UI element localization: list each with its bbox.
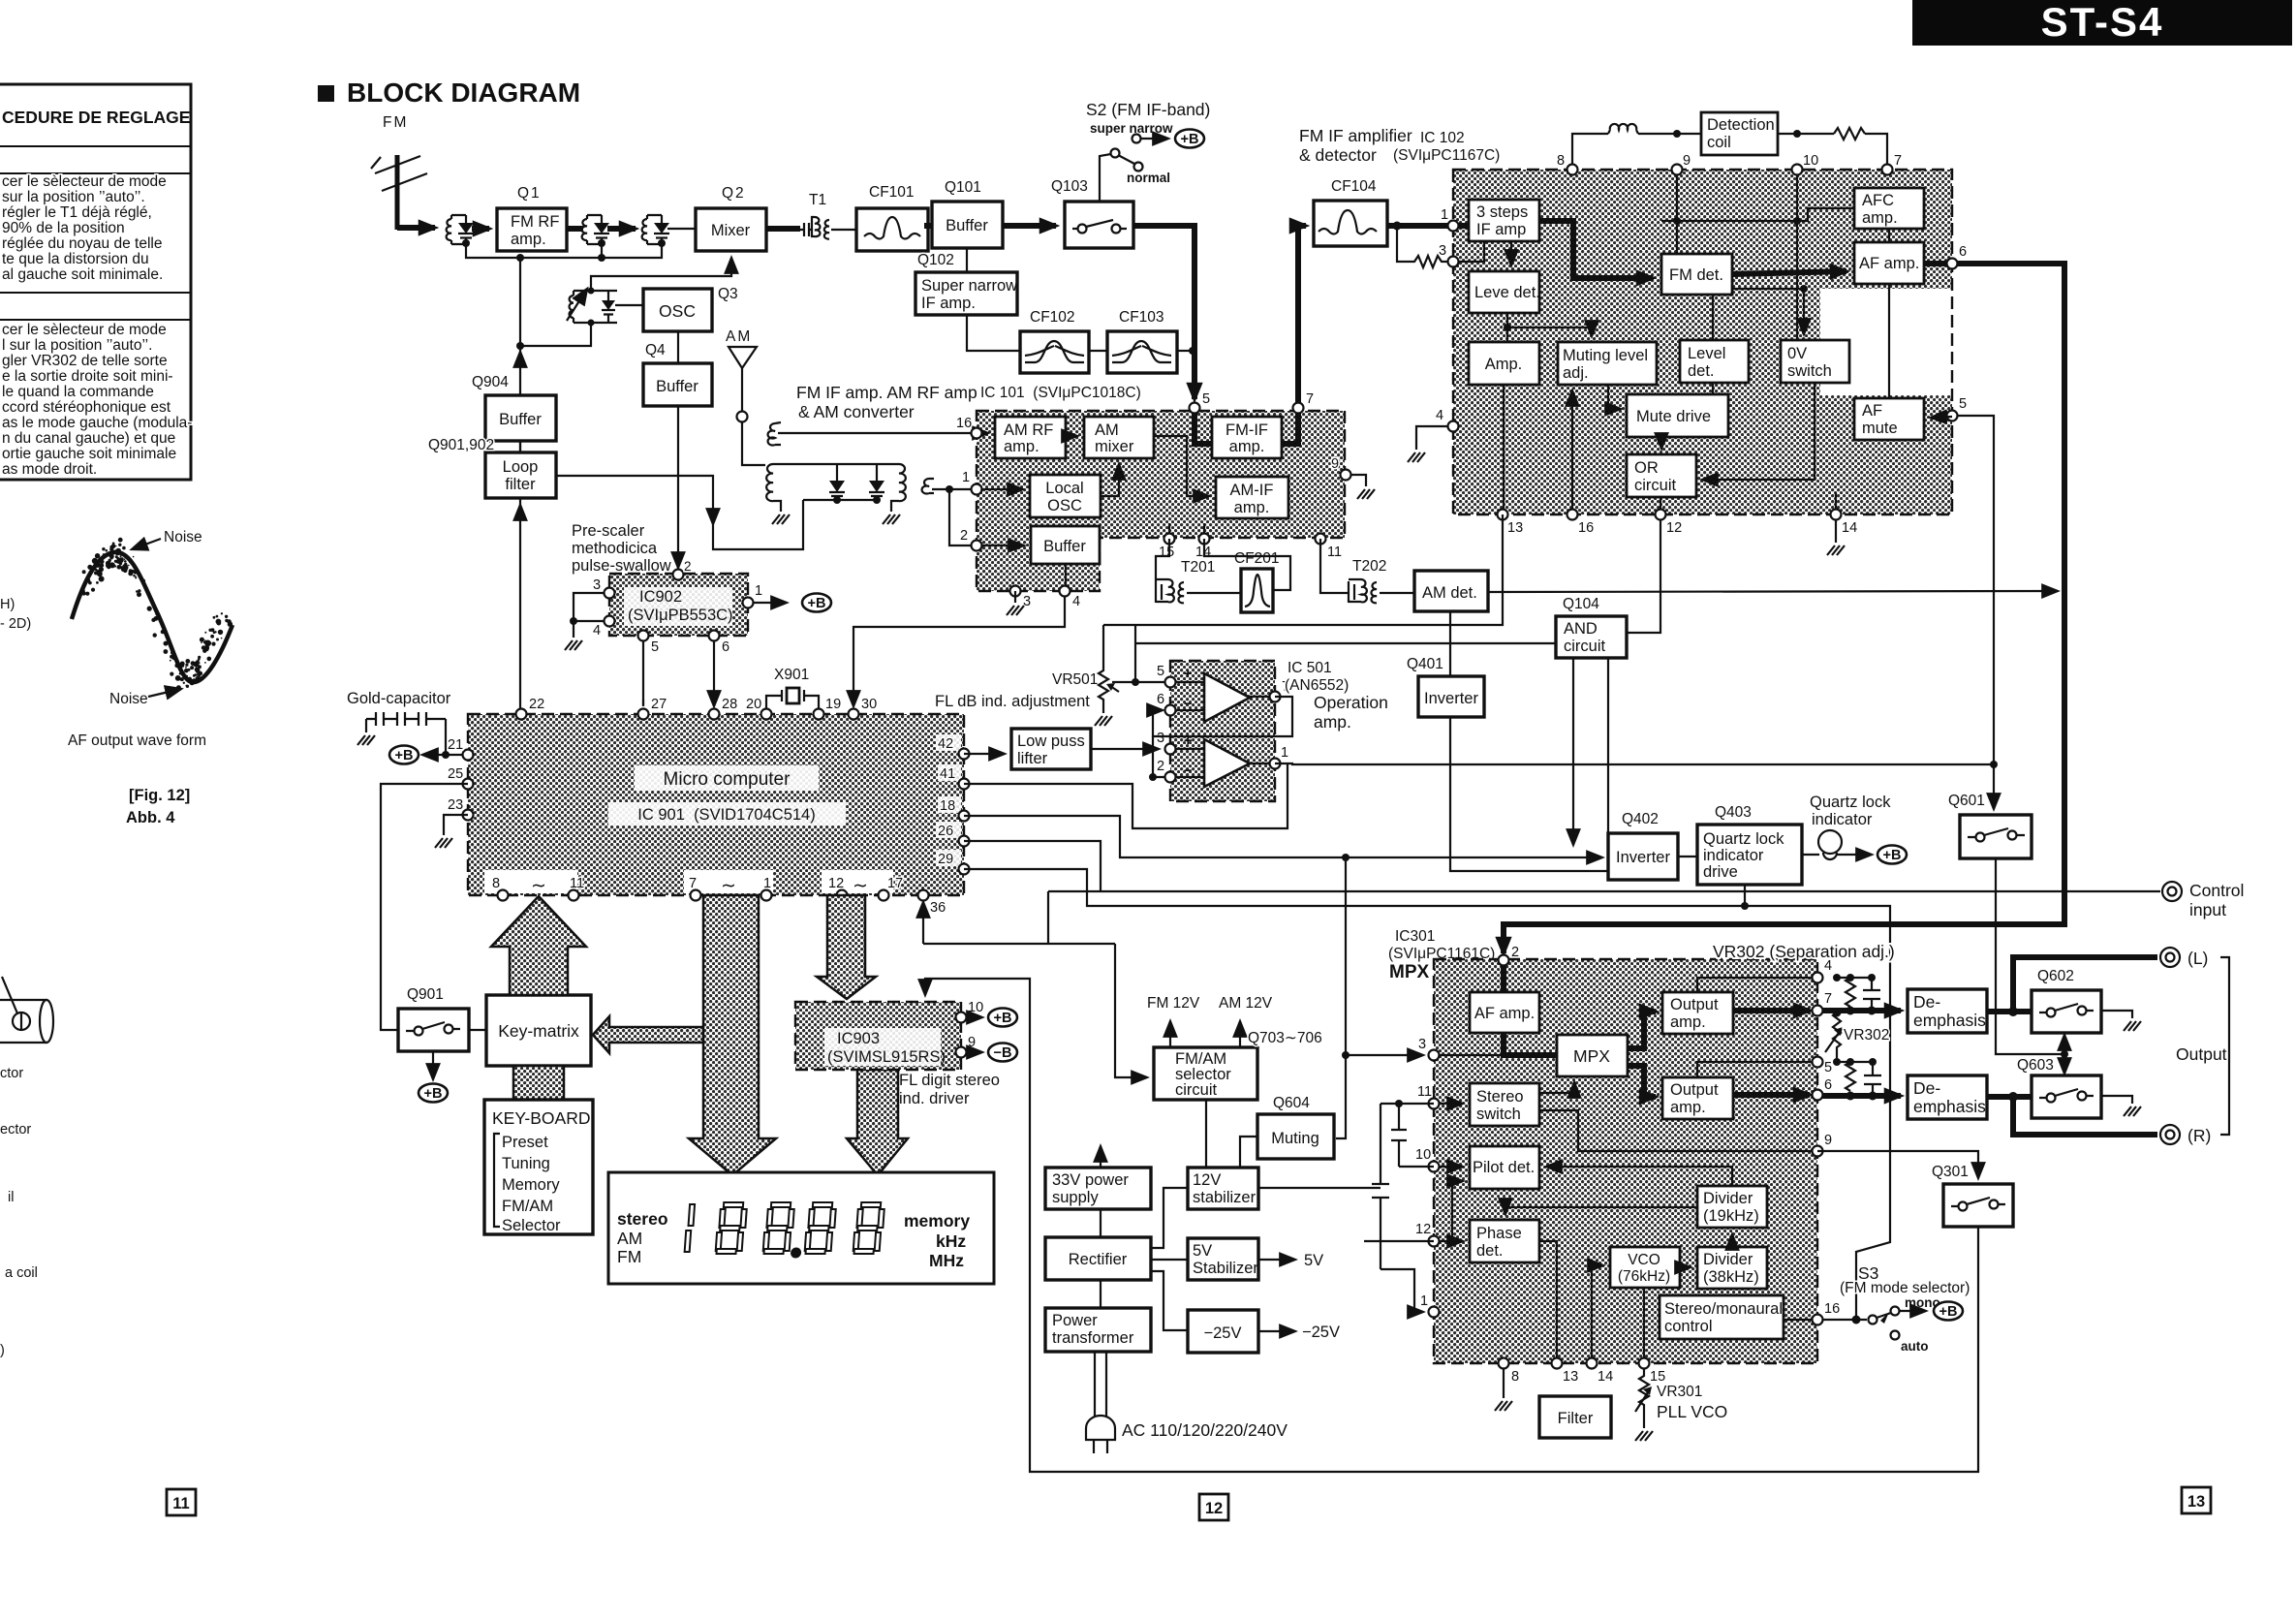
svg-text:26: 26 — [938, 824, 953, 839]
IC101 pins — [1190, 403, 1200, 414]
svg-text:+: + — [1184, 667, 1192, 682]
svg-text:AM-IF: AM-IF — [1230, 482, 1274, 499]
svg-text:AM det.: AM det. — [1422, 584, 1477, 602]
svg-text:(SVIμPB553C): (SVIμPB553C) — [628, 607, 733, 624]
svg-text:KEY-BOARD: KEY-BOARD — [492, 1108, 590, 1128]
French instruction box — [0, 84, 192, 480]
svg-text:∼: ∼ — [721, 876, 736, 896]
svg-text:stabilizer: stabilizer — [1193, 1189, 1257, 1206]
36 net — [922, 902, 924, 944]
buffer (IC101) — [1031, 526, 1100, 564]
svg-text:9: 9 — [1331, 456, 1339, 472]
svg-text:& detector: & detector — [1299, 145, 1377, 165]
svg-text:12: 12 — [1415, 1222, 1431, 1237]
svg-text:H): H) — [0, 597, 15, 612]
svg-text:adj.: adj. — [1563, 364, 1589, 382]
svg-text:switch: switch — [1787, 362, 1832, 380]
svg-text:OSC: OSC — [1047, 497, 1082, 514]
svg-text:42: 42 — [938, 736, 953, 752]
capacitors left of MPX (pins 11/10/12 network) — [1364, 1104, 1434, 1241]
+B supply — [802, 594, 831, 612]
svg-text:Stereo/monaural: Stereo/monaural — [1664, 1300, 1783, 1318]
svg-text:Divider: Divider — [1703, 1251, 1753, 1268]
svg-text:IC903: IC903 — [837, 1030, 880, 1047]
transistor Q2 mixer — [696, 185, 766, 251]
transformer T1 — [800, 192, 829, 239]
18 net to Q402 / MPX pin3 — [964, 816, 1602, 857]
svg-text:12: 12 — [1666, 520, 1682, 536]
svg-text:∼: ∼ — [531, 876, 546, 896]
MPX inner blocks — [1470, 992, 1539, 1033]
svg-text:16: 16 — [956, 416, 972, 431]
Q901,902 loop filter — [428, 437, 556, 498]
feed from IC101 pin4 to pin 30 — [853, 591, 1065, 706]
svg-text:l sur la position ’’auto’’.: l sur la position ’’auto’’. — [2, 337, 152, 354]
svg-text:amp.: amp. — [1670, 1099, 1706, 1116]
ground — [2124, 1021, 2141, 1031]
svg-text:n du canal gauche) et que: n du canal gauche) et que — [2, 430, 175, 447]
svg-text:ST-S4: ST-S4 — [2041, 0, 2164, 45]
svg-text:2: 2 — [960, 528, 968, 544]
svg-text:Preset: Preset — [502, 1134, 548, 1151]
svg-text:Level: Level — [1688, 345, 1725, 362]
svg-text:Q102: Q102 — [917, 252, 954, 268]
+B supply — [988, 1009, 1017, 1027]
svg-text:IC 102: IC 102 — [1420, 130, 1465, 146]
svg-text:2: 2 — [1511, 945, 1519, 960]
svg-text:CF103: CF103 — [1119, 309, 1164, 326]
svg-text:Output: Output — [1670, 1081, 1719, 1099]
svg-text:8: 8 — [492, 876, 500, 891]
svg-text:circuit: circuit — [1175, 1081, 1218, 1099]
svg-text:CF104: CF104 — [1331, 178, 1377, 195]
svg-text:amp.: amp. — [1670, 1013, 1706, 1031]
svg-text:3: 3 — [593, 577, 601, 593]
svg-text:Q402: Q402 — [1622, 811, 1659, 827]
svg-text:T1: T1 — [809, 192, 826, 208]
svg-text:Inverter: Inverter — [1616, 849, 1670, 866]
svg-text:Quartz lock: Quartz lock — [1810, 794, 1891, 811]
svg-text:T202: T202 — [1352, 558, 1386, 575]
svg-text:9: 9 — [1683, 153, 1691, 169]
svg-text:AM 12V: AM 12V — [1219, 995, 1273, 1012]
noise clusters on waveform — [80, 538, 233, 691]
transistor Q101 buffer — [932, 179, 1003, 248]
IC903 — [795, 1000, 983, 1070]
ST-S4 banner — [1912, 0, 2292, 46]
svg-text:11: 11 — [1417, 1084, 1432, 1100]
svg-text:FL digit stereo: FL digit stereo — [899, 1072, 1000, 1089]
svg-text:4: 4 — [1436, 408, 1443, 423]
AF output waveform figure — [68, 529, 233, 826]
svg-text:BLOCK DIAGRAM: BLOCK DIAGRAM — [347, 78, 580, 108]
svg-text:input: input — [2189, 900, 2226, 919]
op1 feedback 7->6 and tie to 2 — [1153, 697, 1292, 736]
svg-text:CF101: CF101 — [869, 184, 915, 201]
transistor Q1 FM RF amp — [497, 185, 567, 251]
+B supply — [1175, 130, 1204, 148]
svg-text:7: 7 — [1824, 991, 1832, 1007]
title BLOCK DIAGRAM — [318, 78, 580, 108]
svg-text:22: 22 — [529, 697, 544, 712]
transistor Q603 switch — [2017, 1057, 2101, 1118]
tuned coil 2 — [582, 215, 609, 244]
svg-text:VR302: VR302 — [1844, 1027, 1889, 1044]
filter CF103 — [1107, 309, 1177, 373]
svg-text:FM: FM — [617, 1247, 641, 1266]
big arrow IC903->display — [847, 1070, 908, 1175]
pin 25 wire to Q901 — [381, 784, 468, 1030]
FM-IF amp — [1212, 417, 1282, 458]
svg-text:Q103: Q103 — [1051, 178, 1088, 195]
svg-text:Q104: Q104 — [1563, 596, 1599, 612]
svg-text:FL dB ind. adjustment: FL dB ind. adjustment — [935, 693, 1090, 710]
micro right pins — [936, 734, 970, 875]
ground — [1635, 1431, 1653, 1441]
svg-text:AM: AM — [617, 1229, 642, 1248]
svg-text:det.: det. — [1476, 1242, 1504, 1260]
svg-text:Buffer: Buffer — [946, 217, 988, 234]
ground — [357, 735, 375, 745]
svg-text:VCO: VCO — [1628, 1252, 1660, 1268]
svg-text:super narrow: super narrow — [1090, 121, 1173, 136]
svg-text:5: 5 — [1824, 1060, 1832, 1075]
svg-text:18: 18 — [940, 798, 955, 814]
potentiometer VR301 — [1639, 1369, 1649, 1428]
CF104 — [1298, 226, 1306, 402]
svg-text:−25V: −25V — [1204, 1324, 1242, 1342]
svg-text:Power: Power — [1052, 1312, 1098, 1329]
AF mute feed from Q601 — [1958, 416, 1994, 764]
svg-text:12V: 12V — [1193, 1171, 1221, 1189]
svg-text:Q4: Q4 — [645, 342, 666, 358]
svg-text:1: 1 — [1420, 1293, 1428, 1309]
svg-text:AM: AM — [1095, 421, 1119, 439]
svg-text:∼: ∼ — [853, 876, 868, 896]
svg-text:T201: T201 — [1181, 559, 1215, 576]
svg-text:AND: AND — [1564, 620, 1598, 638]
svg-text:(SVIMSL915RS): (SVIMSL915RS) — [827, 1048, 946, 1066]
svg-text:IC902: IC902 — [639, 588, 682, 606]
svg-text:Operation: Operation — [1314, 693, 1388, 712]
svg-text:Q2: Q2 — [722, 185, 746, 202]
svg-text:5: 5 — [1202, 391, 1210, 407]
ground — [1827, 545, 1845, 555]
svg-text:coil: coil — [1707, 134, 1731, 151]
svg-text:10: 10 — [968, 1000, 983, 1015]
svg-text:6: 6 — [722, 639, 729, 655]
svg-text:as mode droit.: as mode droit. — [2, 461, 97, 478]
svg-text:19: 19 — [825, 697, 841, 712]
svg-text:Quartz lock: Quartz lock — [1703, 830, 1784, 848]
ground — [1495, 1401, 1512, 1411]
svg-text:4: 4 — [1824, 958, 1832, 974]
noise cluster top — [0, 0, 1, 1]
AC plug — [1095, 1352, 1106, 1417]
svg-text:33V power: 33V power — [1052, 1171, 1129, 1189]
svg-text:pulse-swallow: pulse-swallow — [572, 557, 671, 575]
svg-text:Output: Output — [2176, 1044, 2227, 1064]
transistor Q4 buffer — [643, 342, 712, 406]
svg-text:amp.: amp. — [1234, 499, 1270, 516]
svg-text:det.: det. — [1688, 362, 1715, 380]
big arrow micro->display — [689, 895, 776, 1175]
svg-text:16: 16 — [1578, 520, 1594, 536]
AM det — [1414, 571, 1488, 611]
svg-text:AF amp.: AF amp. — [1474, 1005, 1535, 1022]
pin 4 ground — [1416, 426, 1447, 450]
svg-text:5V: 5V — [1304, 1252, 1323, 1269]
svg-text:& AM converter: & AM converter — [798, 402, 915, 421]
wire antenna to coil — [397, 225, 435, 231]
svg-text:Buffer: Buffer — [1043, 538, 1086, 555]
+B supply — [1934, 1302, 1963, 1321]
svg-text:[Fig. 12]: [Fig. 12] — [129, 787, 190, 804]
svg-text:90% de la position: 90% de la position — [2, 220, 125, 236]
svg-text:3: 3 — [1023, 594, 1031, 609]
svg-text:20: 20 — [746, 697, 761, 712]
svg-text:normal: normal — [1127, 171, 1170, 185]
pin 14 ground — [1835, 520, 1837, 543]
detection coil — [1572, 112, 1887, 170]
svg-text:methodicica: methodicica — [572, 540, 658, 557]
12V line into MPX — [1258, 1187, 1381, 1189]
svg-text:13: 13 — [2187, 1493, 2205, 1511]
svg-text:(L): (L) — [2187, 949, 2208, 968]
svg-text:e la sortie droite soit mini-: e la sortie droite soit mini- — [2, 368, 173, 385]
svg-text:Amp.: Amp. — [1485, 356, 1523, 373]
MPX pins — [1499, 955, 1509, 966]
AM mixer — [1084, 417, 1154, 458]
svg-text:MPX: MPX — [1573, 1046, 1610, 1066]
svg-text:1: 1 — [763, 876, 771, 891]
ground — [772, 514, 790, 524]
svg-text:OR: OR — [1634, 459, 1659, 477]
resistor + capacitor networks at MPX pins 4/7 and 5/6, potentiometer VR302 — [1697, 978, 1817, 992]
svg-text:réglée du noyau de telle: réglée du noyau de telle — [2, 235, 162, 252]
svg-text:FM det.: FM det. — [1669, 266, 1723, 284]
svg-text:FM RF: FM RF — [511, 213, 559, 231]
svg-text:Pilot det.: Pilot det. — [1473, 1159, 1535, 1176]
ground — [1408, 452, 1425, 462]
svg-text:Abb. 4: Abb. 4 — [126, 809, 175, 826]
MPX pin8 ground — [1503, 1369, 1505, 1398]
svg-text:drive: drive — [1703, 863, 1738, 881]
svg-text:): ) — [0, 1343, 5, 1358]
svg-text:Buffer: Buffer — [499, 411, 542, 428]
svg-text:FM 12V: FM 12V — [1147, 995, 1200, 1012]
micro bottom pins — [484, 870, 946, 916]
transistor Q103 IF band switch — [1051, 178, 1133, 248]
svg-text:il: il — [8, 1190, 14, 1205]
svg-text:emphasis: emphasis — [1913, 1097, 1986, 1116]
svg-text:−25V: −25V — [1302, 1324, 1340, 1341]
svg-text:VR302 (Separation adj.): VR302 (Separation adj.) — [1713, 942, 1895, 961]
svg-text:IC 101 (SVIμPC1018C): IC 101 (SVIμPC1018C) — [980, 385, 1141, 401]
svg-text:ctor: ctor — [0, 1066, 23, 1081]
svg-text:amp.: amp. — [1229, 438, 1265, 455]
svg-text:Micro computer: Micro computer — [664, 769, 791, 790]
pin 23 ground — [444, 815, 468, 835]
svg-text:11: 11 — [1327, 545, 1342, 560]
svg-text:mixer: mixer — [1095, 438, 1134, 455]
gold capacitor chain — [347, 690, 451, 755]
svg-text:3: 3 — [1157, 731, 1164, 746]
svg-text:De-: De- — [1913, 992, 1940, 1012]
svg-text:PLL VCO: PLL VCO — [1657, 1402, 1727, 1421]
transistor Q901 switch — [398, 986, 469, 1051]
svg-text:Pre-scaler: Pre-scaler — [572, 522, 645, 540]
svg-text:AM: AM — [726, 328, 752, 345]
svg-text:17: 17 — [887, 876, 903, 891]
svg-text:27: 27 — [651, 697, 667, 712]
svg-text:FM IF amp. AM RF amp: FM IF amp. AM RF amp — [796, 383, 977, 402]
svg-text:4: 4 — [593, 623, 601, 639]
svg-text:Low puss: Low puss — [1017, 732, 1085, 750]
IC501 op amp — [1157, 661, 1289, 801]
svg-text:Muting: Muting — [1271, 1130, 1319, 1147]
AM coupling coil to pin16 — [768, 422, 972, 445]
svg-text:30: 30 — [861, 697, 877, 712]
svg-text:2: 2 — [684, 559, 692, 574]
svg-text:FM IF amplifier: FM IF amplifier — [1299, 126, 1412, 145]
svg-text:circuit: circuit — [1634, 477, 1677, 494]
svg-text:21: 21 — [448, 737, 463, 753]
svg-text:AC 110/120/220/240V: AC 110/120/220/240V — [1122, 1420, 1288, 1440]
svg-text:CF102: CF102 — [1030, 309, 1075, 326]
svg-text:filter: filter — [505, 476, 536, 493]
svg-text:auto: auto — [1901, 1339, 1929, 1354]
filter CF101 — [856, 184, 928, 251]
svg-text:gler VR302 de telle sorte: gler VR302 de telle sorte — [2, 353, 168, 369]
svg-text:Super narrow: Super narrow — [921, 277, 1017, 295]
svg-text:29: 29 — [938, 852, 953, 867]
svg-text:15: 15 — [1650, 1369, 1665, 1385]
VR501 pot — [1095, 625, 1119, 726]
svg-text:cer le sèlecteur de mode: cer le sèlecteur de mode — [2, 322, 167, 338]
svg-text:Q901,902: Q901,902 — [428, 437, 494, 453]
AM-IF amp — [1216, 477, 1288, 518]
svg-text:8: 8 — [1511, 1369, 1519, 1385]
svg-text:Control: Control — [2189, 881, 2244, 900]
svg-text:Memory: Memory — [502, 1176, 560, 1194]
long mute line from pin1 to Q601 — [1275, 763, 1994, 809]
svg-text:7: 7 — [689, 876, 697, 891]
micro top pins — [516, 697, 878, 720]
OSC tank coil + varactor — [567, 288, 617, 327]
svg-text:MPX: MPX — [1389, 962, 1430, 982]
svg-text:as le mode gauche (modula-: as le mode gauche (modula- — [2, 415, 192, 431]
svg-text:CF201: CF201 — [1234, 550, 1280, 567]
svg-text:IF amp.: IF amp. — [921, 295, 976, 312]
svg-text:6: 6 — [1824, 1077, 1832, 1093]
transistor Q604 muting — [1257, 1095, 1334, 1159]
svg-text:FM: FM — [383, 114, 408, 131]
svg-text:Q401: Q401 — [1407, 656, 1443, 672]
svg-text:Selector: Selector — [502, 1217, 561, 1234]
svg-text:3: 3 — [1439, 243, 1446, 259]
AM RF amp — [995, 417, 1066, 458]
svg-text:te que la distorsion du: te que la distorsion du — [2, 251, 149, 267]
svg-text:amp.: amp. — [511, 231, 546, 248]
svg-text:5: 5 — [651, 639, 659, 655]
arrow to Q1 — [472, 226, 489, 232]
margin cylinder icon — [0, 977, 53, 1043]
svg-text:Local: Local — [1045, 480, 1083, 497]
page tags — [167, 1489, 196, 1515]
svg-text:5: 5 — [1157, 664, 1164, 679]
svg-text:AF output wave form: AF output wave form — [68, 732, 206, 749]
svg-text:(AN6552): (AN6552) — [1285, 677, 1349, 694]
key-matrix — [486, 995, 591, 1066]
svg-text:memory: memory — [904, 1211, 970, 1231]
svg-text:IF amp: IF amp — [1476, 221, 1526, 238]
svg-text:IC 901 (SVID1704C514): IC 901 (SVID1704C514) — [637, 806, 815, 824]
svg-text:3: 3 — [1418, 1037, 1426, 1052]
svg-text:AF: AF — [1862, 402, 1882, 420]
svg-text:15: 15 — [1159, 545, 1174, 560]
crystal X901 — [766, 667, 819, 708]
svg-text:Q604: Q604 — [1273, 1095, 1310, 1111]
+B supply — [1877, 846, 1907, 864]
tuned coil 1 — [447, 215, 474, 244]
IC902 prescaler — [593, 559, 762, 655]
svg-text:12: 12 — [828, 876, 844, 891]
svg-text:3 steps: 3 steps — [1476, 203, 1528, 221]
svg-text:- 2D): - 2D) — [0, 616, 31, 632]
svg-text:−: − — [1184, 763, 1192, 779]
svg-text:Muting level: Muting level — [1563, 347, 1648, 364]
svg-text:−: − — [1184, 697, 1192, 712]
FM/AM selector circuit — [1154, 1047, 1257, 1100]
OSC output to mixer — [591, 258, 731, 291]
svg-text:(R): (R) — [2187, 1126, 2211, 1145]
IC102 thin internal wires — [1453, 241, 1484, 262]
-B supply — [988, 1044, 1017, 1062]
svg-text:9: 9 — [968, 1035, 976, 1050]
svg-text:28: 28 — [722, 697, 737, 712]
svg-text:transformer: transformer — [1052, 1329, 1134, 1347]
svg-text:16: 16 — [1824, 1301, 1840, 1317]
svg-text:1: 1 — [1441, 207, 1448, 223]
svg-text:indicator: indicator — [1812, 811, 1873, 828]
svg-text:régler le T1 déjà réglé,: régler le T1 déjà réglé, — [2, 204, 152, 221]
svg-text:le quand la commande: le quand la commande — [2, 384, 154, 400]
svg-text:5: 5 — [1959, 396, 1967, 412]
svg-text:Filter: Filter — [1558, 1410, 1594, 1427]
svg-text:Mixer: Mixer — [711, 222, 751, 239]
transistor Q602 switch — [2032, 968, 2101, 1033]
svg-text:6: 6 — [1959, 244, 1967, 260]
svg-text:AM RF: AM RF — [1004, 421, 1053, 439]
svg-text:FM-IF: FM-IF — [1226, 421, 1268, 439]
svg-text:Divider: Divider — [1703, 1190, 1753, 1207]
MPX thin wiring — [1438, 1054, 1504, 1056]
svg-text:Mute drive: Mute drive — [1636, 408, 1711, 425]
svg-text:7: 7 — [1894, 153, 1902, 169]
svg-text:Q601: Q601 — [1948, 793, 1985, 809]
svg-text:8: 8 — [1557, 153, 1565, 169]
svg-text:4: 4 — [1072, 594, 1080, 609]
svg-text:(38kHz): (38kHz) — [1703, 1268, 1759, 1286]
svg-text:lifter: lifter — [1017, 750, 1048, 767]
svg-text:amp.: amp. — [1314, 712, 1351, 732]
thick wire Q103 to pin5 — [1133, 226, 1195, 399]
svg-text:a coil: a coil — [5, 1265, 38, 1281]
AM coupling coil to pin1 — [922, 479, 972, 545]
svg-text:Key-matrix: Key-matrix — [498, 1021, 579, 1041]
svg-text:13: 13 — [1507, 520, 1523, 536]
